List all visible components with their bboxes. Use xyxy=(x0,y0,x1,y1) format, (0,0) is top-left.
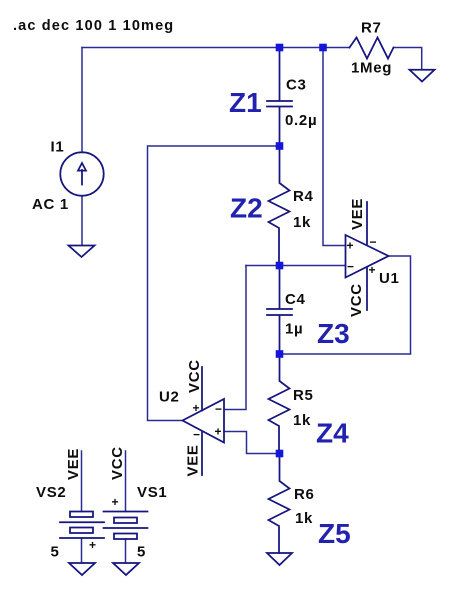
wire VS1 bottom to ground xyxy=(125,539,127,563)
svg-text:5: 5 xyxy=(51,544,60,561)
op-amp U2 xyxy=(183,399,225,443)
wire VCC stub above VS1 xyxy=(125,451,127,512)
capacitor C4 xyxy=(267,266,292,355)
wire VEE stub above VS2 xyxy=(81,451,83,512)
svg-text:−: − xyxy=(215,402,222,416)
svg-text:VEE: VEE xyxy=(185,444,202,476)
svg-text:C4: C4 xyxy=(285,291,306,308)
svg-text:Z5: Z5 xyxy=(318,518,351,549)
svg-text:U1: U1 xyxy=(379,270,400,287)
battery VS1 plate thick lower xyxy=(114,534,137,540)
svg-text:+: + xyxy=(347,239,354,253)
battery VS1 plate long lower xyxy=(104,527,148,529)
svg-text:VS2: VS2 xyxy=(36,484,66,501)
wire I1 bottom to ground xyxy=(81,196,83,245)
wire R7 right lead to ground corner xyxy=(394,48,422,70)
battery VS2 plate thick top xyxy=(70,512,93,518)
svg-text:1k: 1k xyxy=(295,510,313,527)
junction Z2 bottom node xyxy=(276,262,284,270)
wire U2 plus input drop xyxy=(224,432,280,454)
op-amp U1 xyxy=(346,235,389,278)
capacitor C3 xyxy=(267,48,292,147)
current source I1 arrow xyxy=(78,163,86,185)
wire U1 output loop to node Z3 xyxy=(280,256,411,354)
current source I1 circle xyxy=(60,152,103,195)
op-amp U2 VEE power pin xyxy=(201,432,203,476)
wire feedback U2 output to node Z1 bottom xyxy=(148,146,280,421)
battery VS2 plate long lower xyxy=(60,537,104,539)
svg-text:R4: R4 xyxy=(293,188,314,205)
svg-text:+: + xyxy=(193,401,200,415)
junction top Z1 net xyxy=(319,44,327,52)
svg-text:VEE: VEE xyxy=(349,198,366,230)
junction Z1 bottom node xyxy=(276,142,284,150)
op-amp U1 VCC power pin xyxy=(366,268,368,311)
battery VS1 plate thick upper xyxy=(114,518,137,524)
resistor R5 xyxy=(269,354,290,454)
wire top bus mid xyxy=(280,47,324,49)
svg-text:+: + xyxy=(89,538,96,552)
svg-text:AC 1: AC 1 xyxy=(32,196,69,213)
svg-text:VCC: VCC xyxy=(109,446,126,480)
svg-text:I1: I1 xyxy=(51,139,65,156)
svg-text:R7: R7 xyxy=(361,20,382,37)
wire VS2 bottom to ground xyxy=(81,538,83,563)
svg-text:VCC: VCC xyxy=(348,283,365,317)
svg-text:VS1: VS1 xyxy=(137,484,167,501)
svg-text:1µ: 1µ xyxy=(285,321,303,338)
ground under R7 xyxy=(410,70,435,82)
wire I1 top xyxy=(81,48,83,153)
op-amp U2 VCC power pin xyxy=(201,367,203,411)
wire top bus to R7 xyxy=(323,47,350,49)
wire junction Z1 top to U1 plus input xyxy=(323,48,346,246)
svg-text:0.2µ: 0.2µ xyxy=(285,112,317,129)
svg-text:1k: 1k xyxy=(293,412,311,429)
svg-text:−: − xyxy=(347,260,354,274)
svg-text:Z4: Z4 xyxy=(316,418,349,449)
svg-text:+: + xyxy=(369,263,376,277)
svg-text:−: − xyxy=(370,235,377,249)
op-amp U1 VEE power pin xyxy=(366,202,368,244)
svg-text:U2: U2 xyxy=(159,389,180,406)
resistor R7 xyxy=(350,38,394,59)
svg-text:VEE: VEE xyxy=(65,448,82,480)
wire node row to U1 minus input xyxy=(246,265,346,267)
wire U2 minus input riser xyxy=(224,266,246,410)
resistor R4 xyxy=(269,146,290,266)
wire top bus left xyxy=(82,47,280,49)
svg-text:R5: R5 xyxy=(293,387,314,404)
ground under R6 xyxy=(267,553,292,565)
svg-text:1k: 1k xyxy=(293,214,311,231)
junction Z4 node xyxy=(276,450,284,458)
ground under I1 xyxy=(69,246,95,258)
svg-text:1Meg: 1Meg xyxy=(351,60,392,77)
svg-text:VCC: VCC xyxy=(186,359,203,393)
svg-text:Z3: Z3 xyxy=(317,318,350,349)
svg-text:+: + xyxy=(215,425,222,439)
junction Z3 node xyxy=(276,350,284,358)
svg-text:5: 5 xyxy=(137,544,146,561)
resistor R6 xyxy=(269,454,290,554)
ground under VS1 xyxy=(113,563,139,575)
svg-text:.ac dec 100 1 10meg: .ac dec 100 1 10meg xyxy=(13,18,174,34)
junction top C3 xyxy=(276,44,284,52)
battery VS2 plate thick bottom xyxy=(70,528,93,534)
svg-text:−: − xyxy=(193,428,200,442)
svg-text:C3: C3 xyxy=(286,77,307,94)
battery VS1 plate long upper xyxy=(104,511,148,513)
svg-text:Z2: Z2 xyxy=(230,193,263,224)
svg-text:Z1: Z1 xyxy=(229,87,262,118)
svg-text:+: + xyxy=(112,495,119,509)
svg-text:R6: R6 xyxy=(294,486,315,503)
ground under VS2 xyxy=(69,563,95,575)
battery VS2 plate long upper xyxy=(60,521,104,523)
